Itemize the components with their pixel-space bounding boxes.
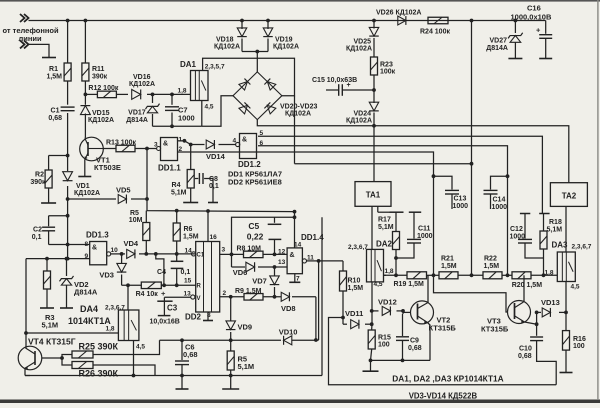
junction dot R3 top (45, 257, 49, 261)
svg-text:15: 15 (184, 277, 192, 284)
scan edge top (0, 0, 600, 2)
svg-text:TA1: TA1 (366, 191, 381, 200)
svg-text:C2: C2 (33, 227, 42, 234)
junction dot VT3 emitter (535, 322, 539, 326)
zener VD2 (59, 259, 73, 308)
label C14 (492, 197, 508, 211)
resistor R11 (82, 63, 89, 81)
diode VD15 (80, 106, 90, 115)
junction dot R19/R21 node (432, 273, 436, 277)
resistor R6 (173, 211, 180, 254)
wire R13 to DD1.1 (135, 148, 157, 150)
svg-text:DD1.2: DD1.2 (238, 160, 261, 169)
junction dot C9 bottom (401, 359, 405, 363)
resistor R20 (512, 272, 531, 279)
svg-text:VD18: VD18 (216, 37, 234, 44)
svg-text:R12 100к: R12 100к (88, 85, 118, 92)
svg-text:TA2: TA2 (562, 192, 577, 201)
gate DD1.3 (90, 242, 107, 265)
wire VT4 emitter (25, 369, 30, 376)
label DA4 pin18 (106, 325, 115, 332)
svg-text:5,1М: 5,1М (547, 226, 563, 233)
wire VD5 row (68, 198, 147, 200)
wire TA1 right-bottom pin (378, 206, 390, 212)
ground VT1 (78, 176, 91, 178)
wire: R12/VD16 row (85, 93, 190, 95)
junction dot VD19 top (266, 19, 270, 23)
svg-text:R22: R22 (484, 256, 497, 263)
junction dot pin16 (206, 209, 210, 213)
wire to bridge top vertex (256, 52, 258, 72)
label VD9 (238, 322, 253, 331)
label R1 (46, 66, 62, 81)
junction dot C13 tap (432, 174, 436, 178)
svg-text:C1: C1 (197, 252, 205, 258)
svg-text:5,1М: 5,1М (42, 320, 59, 329)
junction dot x=473 rail (470, 19, 474, 23)
label DD2 pin8 (207, 312, 211, 319)
resistor R23 (371, 57, 378, 75)
svg-text:100к: 100к (380, 69, 396, 76)
label C9 (408, 338, 422, 353)
svg-text:VD8: VD8 (281, 304, 296, 313)
junction dot x=473 y=163.7 (470, 162, 474, 277)
junction dot R25/R26 (60, 356, 64, 360)
svg-text:КД102А: КД102А (88, 117, 114, 124)
svg-text:КД102А: КД102А (273, 44, 299, 51)
bridge diamond VD20-VD23 (233, 72, 282, 120)
wire VT4 base (42, 357, 62, 359)
svg-text:5,1М: 5,1М (378, 224, 394, 231)
transformer TA1 (355, 182, 391, 207)
svg-text:1: 1 (179, 137, 183, 144)
svg-text:1,5M: 1,5M (46, 74, 62, 81)
ground R2 (41, 202, 56, 204)
label VD13 (541, 298, 560, 307)
svg-text:R4 10к: R4 10к (136, 291, 159, 298)
label VD2 (74, 280, 98, 297)
svg-text:&: & (92, 245, 97, 252)
svg-text:R6: R6 (184, 226, 193, 233)
svg-text:R2: R2 (35, 171, 44, 178)
wire: rail x=67.6 R1..C1..VD1.. (67, 21, 69, 259)
ground: line input (42, 57, 56, 59)
junction dot bus/pin14 (293, 210, 297, 214)
wire R10 bottom (342, 291, 344, 324)
wire: second line input + stub (29, 44, 50, 57)
wire R15 ground stem (370, 360, 372, 371)
capacitor C9 (396, 314, 409, 360)
svg-text:R24 100к: R24 100к (420, 28, 450, 35)
wire emitter row (371, 359, 431, 361)
resistor R3 (44, 259, 51, 308)
wire VT3 emitter (525, 312, 537, 324)
svg-text:C10: C10 (519, 346, 532, 353)
diode VD8 (281, 292, 289, 301)
junction dot VD2 top (65, 257, 69, 261)
svg-text:1000: 1000 (453, 203, 469, 210)
wire TA1 feed (373, 126, 375, 182)
label DD1.3 pin10 (111, 247, 119, 254)
svg-text:+: + (161, 289, 166, 298)
label DA2 (376, 239, 393, 248)
wire VT1 base (103, 148, 116, 150)
resistor R12 (97, 91, 116, 98)
svg-text:C11: C11 (418, 226, 431, 233)
ground C16 (539, 58, 552, 60)
svg-text:+: + (536, 26, 541, 35)
label DD2 (185, 313, 202, 322)
label R6 (183, 226, 199, 241)
ground VD2 (60, 307, 73, 309)
svg-text:1014КТ1А: 1014КТ1А (68, 316, 111, 326)
junction dot VD7 bottom (273, 295, 277, 299)
label R8 (237, 246, 262, 253)
junction dot R15 bottom (369, 359, 373, 363)
ground R4 (183, 202, 198, 204)
label C13 (453, 196, 469, 210)
capacitor C12 (518, 214, 544, 259)
junction dot DA4 top (126, 283, 130, 287)
label R13 (106, 140, 136, 147)
resistor R4b (122, 282, 165, 289)
svg-text:VD12: VD12 (378, 297, 397, 306)
svg-text:R17: R17 (378, 216, 391, 223)
label DD1.3 pin9 (85, 253, 89, 260)
label VD25 (346, 38, 372, 52)
label C11 (417, 226, 433, 241)
wire VT1 emitter (84, 160, 86, 177)
label R24 (420, 28, 450, 35)
junction dot R6 bottom (175, 252, 179, 256)
svg-text:4,5: 4,5 (136, 344, 145, 351)
diode VD26 (398, 16, 406, 25)
resistor R18 (540, 214, 547, 276)
wire: rail x=85.4 (84, 21, 86, 138)
svg-text:R16: R16 (573, 336, 586, 343)
svg-text:VD1: VD1 (76, 183, 90, 190)
bubble DD2 pin13 (191, 295, 195, 299)
svg-text:0,1: 0,1 (181, 269, 191, 276)
label VD14 (206, 152, 226, 161)
bridge diode VD21 (264, 79, 276, 91)
wire net 5 (258, 136, 542, 213)
label DD2 pin16 (210, 234, 218, 241)
label DA2 pin45 (374, 281, 383, 288)
svg-text:4,5: 4,5 (571, 283, 580, 290)
label R25 (79, 342, 119, 352)
svg-text:1,8: 1,8 (545, 269, 554, 276)
svg-text:VD20-VD23: VD20-VD23 (280, 103, 317, 110)
gate DD1.2 (240, 134, 257, 159)
wire DD2 pin3 row (220, 253, 287, 255)
label DD1 type (228, 170, 282, 179)
svg-text:КД102А: КД102А (74, 190, 100, 197)
resistor R26 (72, 362, 93, 369)
junction dot C7 bottom (170, 124, 174, 128)
resistor R4 (187, 145, 194, 203)
svg-text:1000: 1000 (178, 113, 195, 122)
label R3 (42, 313, 59, 329)
svg-text:VD3: VD3 (99, 270, 114, 279)
wire DA4 top stem (127, 285, 129, 310)
svg-text:1,5М: 1,5М (348, 285, 364, 292)
junction dot VD25 top (372, 19, 376, 23)
resistor R1 (64, 63, 71, 81)
label C6 (183, 343, 198, 360)
wire: telephone line input top (29, 20, 68, 22)
junction dot R5 bottom (144, 252, 148, 256)
svg-text:11: 11 (307, 254, 314, 261)
wire VD8 corner (315, 297, 317, 340)
diode VD3 (117, 254, 127, 285)
svg-text:390к: 390к (92, 74, 108, 81)
label DA1 pin 45 (205, 104, 214, 111)
wire resistor row (384, 274, 558, 276)
svg-text:R: R (197, 284, 202, 290)
svg-text:V: V (197, 296, 201, 302)
svg-text:DD2: DD2 (185, 313, 202, 322)
label DA2 pins (348, 244, 368, 251)
junction dot VD17 tap (151, 93, 155, 97)
svg-text:3: 3 (154, 142, 158, 149)
resistor R22 (483, 272, 502, 279)
wire DD1.4 pin14 up (294, 212, 296, 248)
label net 6 (260, 140, 264, 147)
svg-text:1,8: 1,8 (385, 268, 394, 275)
diode VD18 (237, 28, 247, 37)
wire C6 row (160, 339, 319, 341)
junction dot C15 tap (372, 88, 376, 92)
wire R25 path (62, 340, 160, 358)
junction dot C6 (180, 338, 184, 342)
svg-text:VD6: VD6 (233, 268, 248, 277)
svg-text:VD27: VD27 (489, 38, 507, 45)
transistor VT1 (80, 137, 104, 161)
label DD2 pin14 (185, 247, 193, 254)
label DD1.1 pin2 (179, 146, 183, 153)
svg-text:10: 10 (111, 247, 119, 254)
svg-text:2,3,5,7: 2,3,5,7 (205, 63, 225, 70)
wire left rail down (26, 259, 118, 333)
svg-text:16: 16 (210, 234, 218, 241)
svg-text:VD25: VD25 (353, 38, 371, 45)
svg-text:C14: C14 (493, 197, 506, 204)
optocoupler DA1 (191, 71, 209, 101)
capacitor C3 (157, 289, 172, 316)
label R15 (378, 335, 391, 349)
label VD26 (376, 9, 421, 16)
bridge diode VD20 (239, 79, 251, 91)
wire C10 stem (536, 324, 538, 336)
junction dot VD13 left (535, 311, 539, 315)
wire VT4 collector (24, 331, 28, 348)
svg-text:0,68: 0,68 (48, 115, 62, 122)
svg-text:DD1.1: DD1.1 (158, 164, 181, 173)
svg-text:R8 10М: R8 10М (237, 246, 262, 253)
svg-text:DA1, DA2 ,DA3 КР1014КТ1А: DA1, DA2 ,DA3 КР1014КТ1А (392, 373, 503, 383)
svg-text:4,5: 4,5 (374, 281, 383, 288)
junction dot TA1 feed (372, 124, 376, 128)
wire C10 bottom to loop (537, 341, 557, 385)
label DA3 pins (572, 244, 592, 251)
svg-text:0,1: 0,1 (209, 183, 219, 190)
svg-text:C8: C8 (209, 176, 218, 183)
svg-text:1000,0x10В: 1000,0x10В (511, 12, 552, 21)
wire VD17 stem (152, 94, 154, 126)
label DD1.2 pin4 (233, 137, 237, 144)
wire VT2 emitter (428, 323, 431, 361)
svg-text:DA2: DA2 (376, 239, 393, 248)
transformer TA2 (550, 183, 587, 207)
junction dot VD5 node (145, 197, 149, 201)
diode VD9 (226, 297, 236, 340)
svg-text:DA1: DA1 (180, 60, 197, 69)
label R19 (394, 281, 425, 288)
label VD4 (124, 239, 139, 248)
svg-text:13: 13 (184, 291, 192, 298)
wire net 6 (258, 146, 508, 275)
label C2 (32, 227, 42, 241)
junction dot VD13 right (564, 311, 568, 315)
transistor VT4 (18, 346, 42, 370)
svg-text:C4: C4 (157, 269, 166, 276)
svg-text:R19 1,5М: R19 1,5М (394, 281, 425, 288)
bubble DD1.3 out (107, 252, 111, 256)
wire VD13 row (537, 311, 566, 313)
label VD19 (273, 37, 299, 51)
label R20 (512, 282, 543, 289)
label DA4 pin45 (136, 344, 145, 351)
terminal bar R17 (390, 211, 404, 213)
wire DD1.3 out row (111, 253, 196, 255)
svg-text:0,68: 0,68 (408, 345, 422, 352)
resistor R15 (368, 329, 375, 360)
label DD1.3 (86, 230, 109, 239)
label VD6 (233, 268, 248, 277)
svg-text:1000: 1000 (510, 233, 526, 240)
capacitor C5 (268, 217, 282, 254)
junction dot R1 top (66, 19, 70, 23)
label R12 (88, 85, 118, 92)
diode VD11 (343, 320, 372, 329)
resistor R21 (439, 272, 458, 279)
ground R5b (222, 388, 239, 390)
svg-text:0,68: 0,68 (518, 353, 532, 360)
diode VD7 (270, 267, 280, 297)
svg-text:VD4: VD4 (124, 239, 139, 248)
svg-text:R4: R4 (172, 182, 181, 189)
gate DD1.1 (157, 138, 178, 161)
label DD1.4 pin14 (294, 241, 302, 248)
capacitor C2 (42, 216, 55, 245)
svg-text:7: 7 (296, 275, 300, 282)
diode VD10 (284, 336, 292, 345)
label R5 (129, 210, 143, 224)
wire VT2 collector (427, 275, 429, 302)
label R16 (573, 336, 586, 350)
svg-text:VD26 КД102А: VD26 КД102А (376, 9, 421, 16)
svg-text:1,5М: 1,5М (183, 233, 199, 240)
wire net 2 (178, 152, 434, 275)
label C5 (247, 221, 264, 241)
label R26 (79, 369, 119, 379)
svg-text:DA4: DA4 (80, 304, 98, 314)
label R4 (171, 182, 187, 197)
capacitor C10 (530, 337, 543, 341)
label TA1 (366, 191, 381, 200)
wire DA2 column (371, 311, 373, 329)
label R9 (235, 288, 262, 295)
label VD15 (88, 110, 114, 124)
wire C2 top (49, 215, 68, 217)
svg-text:R23: R23 (380, 61, 393, 68)
wire VT1 collector (84, 138, 86, 140)
diode VD5 (118, 194, 126, 203)
svg-text:КТ315Б: КТ315Б (481, 324, 509, 333)
svg-text:Д814А: Д814А (486, 45, 508, 52)
wire R2 top (49, 154, 70, 170)
resistor R17 (393, 212, 400, 275)
terminal bar C12 (520, 213, 530, 215)
junction dot VD7 top (273, 265, 277, 269)
junction dot VD9 bottom (229, 338, 233, 342)
wire U-loop to VT3 base (434, 275, 509, 312)
svg-text:C1: C1 (51, 108, 60, 115)
wire C5 branch (232, 217, 295, 254)
junction dot VD27 top (514, 19, 518, 23)
bubble DD1.2 in (236, 142, 240, 146)
resistor R19 (407, 272, 427, 279)
label DD1.1 pin3 (154, 142, 158, 149)
label R22 (484, 256, 500, 271)
scan edge right (597, 0, 598, 400)
capacitor C8 (195, 173, 218, 203)
junction dot R6 top (175, 209, 179, 213)
svg-text:R5: R5 (130, 210, 139, 217)
wire DD1.3 pin8 (49, 244, 90, 246)
wire DD2 pin8 stem (207, 312, 209, 321)
junction dot R4b right (162, 283, 166, 287)
svg-text:КТ503Е: КТ503Е (94, 163, 121, 172)
label DA4 pins (105, 305, 125, 312)
junction dot R17 node (394, 273, 398, 277)
svg-text:VD19: VD19 (275, 37, 293, 44)
svg-text:390к: 390к (30, 179, 46, 186)
svg-text:C16: C16 (527, 4, 541, 13)
label R23 (380, 61, 396, 75)
wire TA1 bottom to DA2 (371, 206, 373, 250)
svg-text:C3: C3 (167, 304, 178, 313)
resistor R24 (428, 17, 448, 24)
wire DD1.4 out (307, 260, 344, 262)
wire jog to VD4 net (156, 254, 164, 285)
svg-text:VD14: VD14 (206, 152, 226, 161)
svg-text:VD11: VD11 (345, 309, 363, 318)
wire C5box down (321, 217, 323, 375)
wire column x=374 (373, 21, 375, 126)
label VD12 (378, 297, 397, 306)
resistor R10 (340, 261, 347, 291)
svg-text:14: 14 (185, 247, 193, 254)
capacitor C7 (165, 107, 179, 111)
label DD1.4 pin13 (278, 259, 286, 266)
diode VD6 (246, 262, 255, 272)
label R18 (547, 219, 563, 233)
wire VT2 base (403, 311, 411, 313)
svg-text:&: & (242, 137, 247, 144)
svg-text:R13 100к: R13 100к (106, 140, 136, 147)
